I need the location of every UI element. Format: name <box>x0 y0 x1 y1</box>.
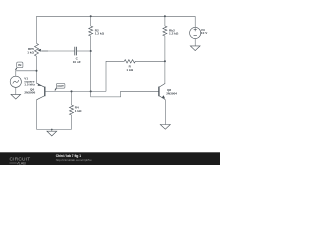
potentiometer RP5 body <box>35 43 39 56</box>
node junction base/cap <box>90 90 92 92</box>
svg-text:1.2 kΩ: 1.2 kΩ <box>95 32 105 36</box>
transistor Q6 emitter lead <box>37 83 45 87</box>
node junction top rail Rb2 <box>164 15 166 17</box>
wire capacitor to node <box>77 50 91 52</box>
potentiometer RP5 wiper arrow <box>42 50 49 52</box>
svg-text:1.2 kΩ: 1.2 kΩ <box>169 32 179 36</box>
svg-text:1.5 kHz: 1.5 kHz <box>24 82 35 86</box>
node ground stub <box>51 129 53 131</box>
node junction R4 top <box>71 90 73 92</box>
svg-text:1 kΩ: 1 kΩ <box>126 68 133 72</box>
svg-text:http://circuitlab.com/c/pb5u: http://circuitlab.com/c/pb5u <box>56 158 92 162</box>
svg-text:10 V: 10 V <box>201 31 208 35</box>
wire V3 drop <box>194 16 196 27</box>
wire top rail <box>37 15 196 17</box>
wire base node Q6 to riser <box>45 90 106 92</box>
node junction pot/V1 <box>36 70 38 72</box>
node junction R/Rb2/collector <box>164 60 166 62</box>
transistor Q6 base bar <box>43 87 46 97</box>
footer bar <box>0 152 220 165</box>
ground on bottom rail <box>47 131 57 136</box>
transistor Q8 collector lead <box>164 61 166 83</box>
svg-text:2N3906: 2N3906 <box>24 90 35 94</box>
ground below Q8 <box>160 125 170 130</box>
transistor Q8 base bar <box>158 87 161 97</box>
wire bottom rail <box>37 128 72 130</box>
transistor Q6 emitter arrow (PNP into bar) <box>38 84 42 86</box>
resistor R2 <box>90 16 92 26</box>
wire Q6 collector down <box>36 100 38 130</box>
node flag OUT <box>55 88 57 91</box>
wire riser to R branch <box>106 61 124 91</box>
wire left drop to potentiometer <box>36 16 38 43</box>
wire R to collector node <box>135 60 165 62</box>
transistor Q8 emitter lead <box>159 96 165 100</box>
node flag IN <box>16 68 17 70</box>
svg-text:1 kΩ: 1 kΩ <box>27 51 34 55</box>
wire potentiometer bottom down <box>36 56 38 83</box>
wire Q8 emitter to ground <box>164 100 166 125</box>
wire V1 to ground <box>15 87 17 94</box>
transistor Q8 emitter arrow <box>162 95 165 98</box>
ground below V3 <box>190 46 200 51</box>
svg-text:LAB: LAB <box>19 162 27 165</box>
resistor R4 <box>71 91 73 105</box>
svg-text:OUT: OUT <box>57 84 64 88</box>
wire wiper to capacitor <box>41 50 75 52</box>
wire cap node down to base jog <box>91 51 159 97</box>
node junction cap/R2 <box>90 50 92 52</box>
resistor R horizontal <box>124 60 135 63</box>
node junction top rail R2 <box>90 15 92 17</box>
ground below V1 <box>11 94 21 99</box>
wire V3 to ground <box>194 39 196 46</box>
svg-text:2N3904: 2N3904 <box>166 91 177 95</box>
svg-text:1 kΩ: 1 kΩ <box>75 109 82 113</box>
voltage source V1 <box>10 76 21 87</box>
transistor Q6 collector lead <box>37 96 45 100</box>
capacitor C plates <box>75 47 77 56</box>
svg-text:10 nF: 10 nF <box>73 60 81 64</box>
voltage source V3 <box>190 27 201 38</box>
resistor Rb2 <box>164 16 166 26</box>
wire to V1 <box>16 71 37 76</box>
